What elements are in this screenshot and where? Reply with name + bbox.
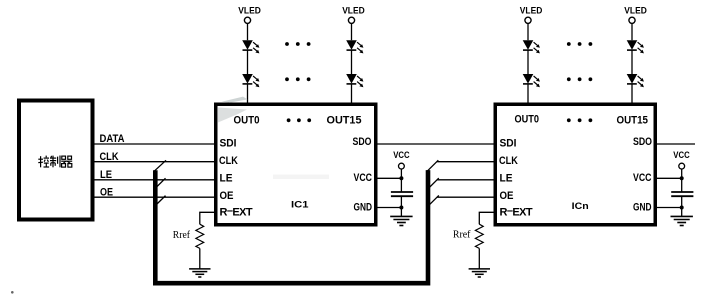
wire xyxy=(631,23,633,40)
svg-text:R–EXT: R–EXT xyxy=(220,205,253,219)
ground xyxy=(671,216,693,225)
LED D2 xyxy=(242,74,259,87)
ellipsis dots row 1 right xyxy=(567,42,592,46)
svg-text:LE: LE xyxy=(220,173,233,185)
svg-text:ICn: ICn xyxy=(572,201,589,212)
svg-text:OE: OE xyxy=(500,190,514,202)
junction dot xyxy=(680,176,684,180)
bus exit slash CLK right xyxy=(427,160,439,171)
wire xyxy=(527,50,529,74)
IC Un (ICn) box xyxy=(495,104,655,225)
terminal VLED xyxy=(348,17,354,23)
resistor Rref xyxy=(196,224,204,248)
wire VCC pin xyxy=(657,177,682,179)
VCC decoupling network of ICn xyxy=(657,150,694,226)
svg-text:LE: LE xyxy=(500,173,513,185)
bus entry slash CLK left xyxy=(154,160,167,172)
svg-text:OE: OE xyxy=(100,186,113,198)
ground xyxy=(189,269,210,277)
控 xyxy=(40,156,42,167)
wire OE to ICn xyxy=(437,196,495,198)
terminal VLED xyxy=(525,17,531,23)
LED chain 1 (VLED -> OUT0 of IC1) xyxy=(238,6,261,105)
svg-text:DATA: DATA xyxy=(100,133,125,145)
terminal VLED xyxy=(629,17,635,23)
Rref network of IC1 xyxy=(173,212,214,277)
器 xyxy=(62,156,66,159)
controller box xyxy=(19,101,93,220)
ground xyxy=(390,216,412,225)
svg-text:VLED: VLED xyxy=(342,6,365,16)
capacitor C1 xyxy=(391,191,413,193)
bus exit slash OE right xyxy=(427,195,439,206)
svg-text:GND: GND xyxy=(633,202,652,214)
VCC decoupling network of IC1 xyxy=(378,150,414,226)
wire LE to ICn xyxy=(437,179,495,181)
terminal VCC xyxy=(399,163,405,169)
wire R-EXT pin xyxy=(479,212,495,224)
svg-text:IC1: IC1 xyxy=(291,200,309,211)
wire DATA xyxy=(95,143,215,145)
LED chain 2 (VLED -> OUT15 of IC1) xyxy=(342,6,365,105)
svg-text:OUT15: OUT15 xyxy=(617,115,649,127)
svg-text:GND: GND xyxy=(354,202,373,214)
LED D8 xyxy=(627,74,644,87)
IC1 inner dots xyxy=(287,118,311,122)
LED D7 xyxy=(627,40,644,53)
terminal VCC xyxy=(679,163,685,169)
junction dot xyxy=(399,176,403,180)
bus exit slash LE right xyxy=(427,178,439,189)
resistor Rref xyxy=(475,224,483,248)
svg-text:VLED: VLED xyxy=(238,6,261,16)
LED D6 xyxy=(523,74,540,87)
wire xyxy=(400,169,402,192)
wire R-EXT pin xyxy=(200,212,214,224)
junction dot xyxy=(399,206,403,210)
wire GND pin xyxy=(657,207,682,209)
ground xyxy=(469,269,490,277)
capacitor Cn xyxy=(671,191,693,193)
wire xyxy=(527,84,529,104)
LED chain 3 (VLED -> OUT0 of ICn) xyxy=(520,6,543,105)
svg-text:OUT15: OUT15 xyxy=(327,115,362,127)
ellipsis dots row 1 left xyxy=(285,42,310,46)
wire CLK to ICn xyxy=(437,161,495,163)
ICn inner dots xyxy=(567,118,592,122)
IC U1 (IC1) box xyxy=(216,104,376,225)
svg-text:SDO: SDO xyxy=(353,136,372,148)
wire SDO of IC1 to SDI of ICn xyxy=(378,143,496,145)
svg-text:CLK: CLK xyxy=(219,155,238,167)
wire GND pin xyxy=(378,207,402,209)
bus entry slash OE left xyxy=(154,196,166,207)
LED D1 xyxy=(242,40,259,53)
wire xyxy=(400,196,402,216)
svg-text:OUT0: OUT0 xyxy=(515,114,540,126)
wire xyxy=(351,23,353,40)
svg-text:OUT0: OUT0 xyxy=(234,114,260,126)
wire xyxy=(199,248,201,269)
wire xyxy=(247,84,249,104)
svg-text:SDI: SDI xyxy=(500,137,517,149)
controller label 控制器 xyxy=(38,156,72,168)
LED D4 xyxy=(346,74,363,87)
wire xyxy=(351,50,353,74)
wire SDO stub of ICn xyxy=(657,143,696,145)
wire xyxy=(351,84,353,104)
svg-text:OE: OE xyxy=(220,190,234,202)
svg-text:Rref: Rref xyxy=(453,230,471,241)
svg-text:CLK: CLK xyxy=(499,155,518,167)
wire xyxy=(527,23,529,40)
wire xyxy=(631,84,633,104)
svg-text:VLED: VLED xyxy=(520,6,543,16)
ellipsis dots row 2 right xyxy=(567,77,592,81)
wire VCC pin xyxy=(378,177,402,179)
LED D3 xyxy=(346,40,363,53)
junction dot xyxy=(680,206,684,210)
svg-text:LE: LE xyxy=(100,169,112,181)
wire CLK xyxy=(95,161,215,163)
wire xyxy=(247,50,249,74)
terminal VLED xyxy=(244,17,250,23)
制 xyxy=(50,156,53,158)
svg-text:SDI: SDI xyxy=(220,137,237,149)
LED D5 xyxy=(523,40,540,53)
svg-text:CLK: CLK xyxy=(100,151,119,163)
wire xyxy=(681,169,683,192)
wire xyxy=(681,196,683,216)
ellipsis dots row 2 left xyxy=(285,77,310,81)
wire xyxy=(631,50,633,74)
svg-text:Rref: Rref xyxy=(173,230,191,241)
bus (thick U-shaped: left drop, bottom run, right rise) xyxy=(155,170,428,283)
svg-text:SDO: SDO xyxy=(633,136,652,148)
wire OE xyxy=(95,196,215,198)
svg-text:R–EXT: R–EXT xyxy=(500,205,533,219)
svg-text:VCC: VCC xyxy=(393,150,410,160)
wire LE xyxy=(95,179,215,181)
bus entry slash LE left xyxy=(154,178,166,189)
svg-text:VCC: VCC xyxy=(354,172,373,184)
Rref network of ICn xyxy=(453,212,495,277)
LED chain 4 (VLED -> OUT15 of ICn) xyxy=(624,6,647,105)
svg-text:VLED: VLED xyxy=(624,6,647,16)
wire xyxy=(247,23,249,40)
svg-text:VCC: VCC xyxy=(633,172,652,184)
wire xyxy=(478,248,480,269)
svg-text:VCC: VCC xyxy=(673,150,690,160)
